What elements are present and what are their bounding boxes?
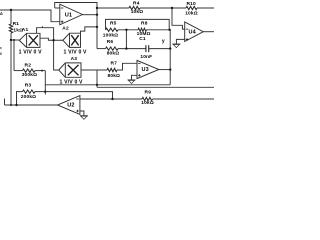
svg-text:10kΩ: 10kΩ xyxy=(131,9,144,15)
svg-text:A1: A1 xyxy=(22,27,29,33)
svg-text:y: y xyxy=(162,38,165,44)
svg-text:1 V/V 0 V: 1 V/V 0 V xyxy=(64,49,87,55)
svg-text:300kΩ: 300kΩ xyxy=(22,72,37,78)
svg-text:R10: R10 xyxy=(187,1,196,7)
svg-text:R6: R6 xyxy=(107,39,114,45)
svg-text:1 V/V 0 V: 1 V/V 0 V xyxy=(19,49,42,55)
svg-text:10nF: 10nF xyxy=(140,54,152,60)
svg-text:R7: R7 xyxy=(110,60,117,66)
svg-text:C1: C1 xyxy=(139,36,146,42)
svg-text:10kΩ: 10kΩ xyxy=(141,100,154,106)
svg-text:R2: R2 xyxy=(25,63,32,69)
svg-text:200kΩ: 200kΩ xyxy=(21,94,36,100)
svg-text:10kΩ: 10kΩ xyxy=(185,11,198,17)
svg-text:80kΩ: 80kΩ xyxy=(108,73,121,79)
svg-text:R3: R3 xyxy=(25,82,32,88)
svg-text:A3: A3 xyxy=(71,56,78,62)
svg-text:1 V/V 0 V: 1 V/V 0 V xyxy=(60,80,83,86)
svg-text:A2: A2 xyxy=(62,26,69,32)
svg-text:80kΩ: 80kΩ xyxy=(107,51,120,57)
svg-text:U4: U4 xyxy=(189,30,197,36)
svg-text:U3: U3 xyxy=(142,67,149,73)
svg-text:100kΩ: 100kΩ xyxy=(103,32,118,38)
svg-text:R4: R4 xyxy=(133,1,140,7)
svg-text:R5: R5 xyxy=(110,21,117,27)
svg-text:U1: U1 xyxy=(65,12,72,18)
svg-text:R8: R8 xyxy=(141,20,148,26)
svg-text:R1: R1 xyxy=(13,21,20,27)
svg-text:U2: U2 xyxy=(67,103,74,109)
svg-text:R9: R9 xyxy=(145,90,152,96)
